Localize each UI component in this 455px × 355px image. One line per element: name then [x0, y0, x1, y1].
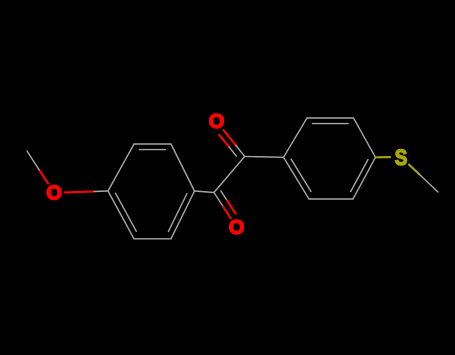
ring-S bond (white half near ring) [376, 156, 378, 158]
right benzene ring BR-BL bottom edge [309, 198, 353, 200]
left benzene ring TL-TR top edge [134, 143, 171, 145]
central C2-C1 single bond [214, 156, 245, 192]
bond carbonyl carbon C1 to right ring [245, 155, 284, 158]
left benzene ring TR-R edge [171, 144, 195, 191]
left benzene ring BL-L edge [108, 191, 134, 239]
S-CH3 bond (yellow half near S) [409, 165, 419, 175]
C2=O2 double bond second line (red half) [227, 201, 236, 214]
right benzene ring L-TL edge [284, 118, 308, 157]
right benzene ring R-BR edge [353, 157, 376, 199]
bond left ring to carbonyl carbon C2 [195, 191, 215, 193]
right benzene ring BL-L edge [284, 157, 310, 199]
svg-text:O: O [229, 217, 245, 239]
C2=O2 double bond main line (white half) [214, 193, 223, 207]
left benzene ring L-TL edge [108, 144, 134, 191]
right benzene ring TR-R edge [354, 118, 376, 157]
left benzene ring BR-BL bottom edge [134, 238, 171, 240]
C1=O1 double bond second line (red half) [219, 135, 229, 147]
C2=O2 double bond main line (red half) [223, 207, 230, 218]
methoxy O-ring bond (white half near ring) [94, 190, 108, 193]
S-CH3 bond (white half near CH3) [419, 174, 438, 192]
left benzene ring inner double-bond line (top) [140, 149, 166, 151]
C1=O1 double bond main line (white half) [236, 145, 245, 156]
C1=O1 double bond second line (white half) [229, 147, 236, 156]
methoxy O-ring bond (red half near O) [65, 190, 94, 193]
left benzene ring R-BR edge [171, 191, 195, 239]
right benzene ring inner double-bond line (lower-left) [291, 159, 311, 191]
methoxy O-CH3 bond (red half near O) [39, 170, 48, 184]
ring-S bond (yellow half near S) [377, 156, 390, 158]
svg-text:O: O [46, 182, 62, 204]
svg-text:S: S [395, 145, 408, 170]
right benzene ring inner double-bond line (top) [313, 123, 349, 125]
methoxy O-CH3 bond (white half near CH3) [27, 151, 39, 170]
right benzene ring TL-TR top edge [307, 117, 354, 119]
left benzene ring inner double-bond line (lower-right) [168, 194, 187, 232]
right benzene ring inner double-bond line (lower-right) [351, 160, 368, 192]
C1=O1 double bond main line (red half) [223, 130, 235, 145]
svg-text:O: O [209, 111, 225, 133]
left benzene ring inner double-bond line (lower-left) [116, 193, 137, 231]
C2=O2 double bond second line (white half) [221, 191, 227, 201]
